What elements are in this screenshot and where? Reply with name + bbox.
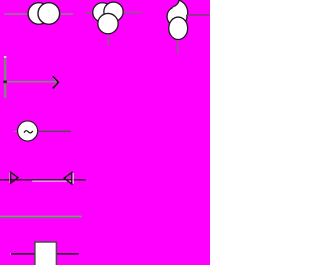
sine symbol ~ — [24, 131, 33, 133]
transmission line TL1 with flow arrowheads — [0, 172, 86, 184]
bus stub highlight cap — [4, 56, 7, 58]
wire: G1 right lead — [38, 131, 71, 132]
wire: T1 right lead — [60, 13, 74, 15]
winding remnant fin (clipped circle above) — [173, 0, 188, 15]
transformer T3 (vertical, clipped at top) — [167, 0, 210, 53]
wire: T2 bottom lead — [108, 35, 109, 46]
wire: T3 right lead — [188, 14, 210, 15]
bus stub bar — [4, 58, 7, 98]
wire: CB1 left lead — [11, 253, 36, 254]
wire: CB1 right lead — [56, 253, 78, 254]
generator circle G1 — [18, 121, 38, 141]
winding circle T1-b — [38, 3, 60, 25]
node: junction dot — [3, 81, 7, 84]
arrowhead left-pointing (open triangle) — [73, 173, 74, 184]
breaker box — [35, 242, 57, 265]
generator G1 (AC source) — [14, 121, 71, 141]
wire: T3 bottom lead — [177, 40, 178, 53]
transformer T1 (two-winding, horizontal) — [4, 3, 73, 25]
wire: line conductor — [0, 179, 86, 180]
highlight under conductor — [32, 180, 71, 183]
wire: load arrow shaft — [4, 81, 57, 83]
load L1 (arrow from bus stub) — [3, 56, 58, 98]
load arrowhead chevron — [54, 78, 58, 87]
background (transparency key) — [0, 0, 210, 265]
transformer T2 (three-winding) — [86, 2, 142, 46]
winding circle T2-TR — [104, 2, 123, 21]
winding circle T2-B — [98, 13, 118, 33]
winding circle T1-a — [28, 3, 50, 25]
wire: T1 left lead — [4, 13, 28, 15]
wire: CB1 left lead highlight cap — [9, 253, 12, 254]
arrowhead right-pointing (open triangle) — [10, 173, 11, 183]
wire: T2 left lead — [86, 12, 94, 13]
winding circle T2-TL — [93, 3, 112, 22]
bus B1 (gray bar) — [0, 216, 82, 218]
winding circle T3-middle — [167, 7, 187, 27]
circuit breaker CB1 — [10, 242, 79, 265]
winding circle T3-bottom — [169, 17, 188, 40]
wire: G1 left stub — [14, 131, 18, 132]
wire: T2 right lead — [124, 12, 142, 13]
